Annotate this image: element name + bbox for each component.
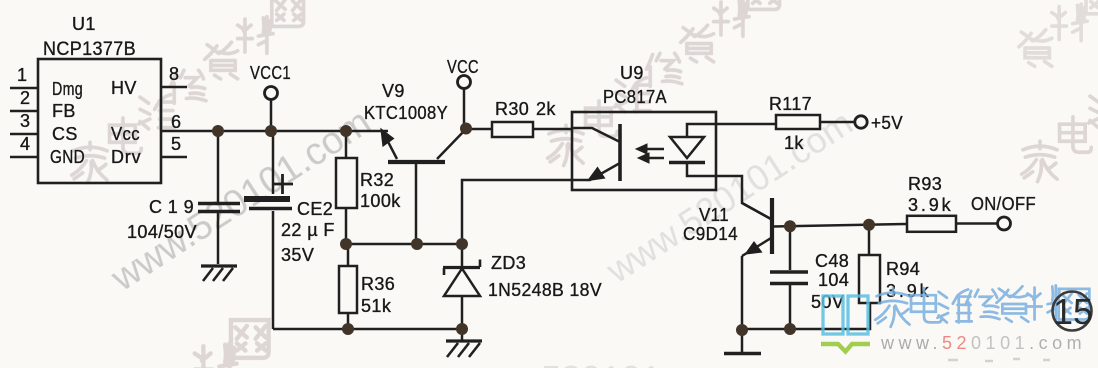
svg-text:Drv: Drv [111,147,141,167]
U9 LED [687,124,776,137]
svg-text:15: 15 [1053,291,1093,332]
wire U9 emitter to node [462,180,572,244]
wire pin6 main [161,130,388,133]
svg-text:VCC: VCC [447,57,479,77]
pin 4 stub [10,156,38,159]
svg-text:3: 3 [20,111,30,131]
svg-text:R93: R93 [908,174,942,194]
svg-text:Dmg: Dmg [52,79,83,99]
svg-text:+5V: +5V [871,113,903,133]
node rail-V9base [411,238,423,250]
pin 5 stub [161,156,187,159]
capacitor C19 [198,202,240,205]
wire mid rail [346,243,462,246]
svg-text:U1: U1 [72,14,96,34]
svg-text:100k: 100k [360,191,401,211]
svg-text:1: 1 [17,65,27,85]
svg-text:HV: HV [111,78,137,98]
svg-text:PC817A: PC817A [603,87,667,107]
U9 light arrows [642,148,664,151]
wire to R30 [466,128,492,131]
resistor R93 [907,216,956,232]
wire bottom rail left [273,328,462,331]
svg-text:ZD3: ZD3 [491,253,526,273]
wire C19 drop [217,131,220,202]
svg-text:C48: C48 [815,251,849,271]
wire CE2 drop [272,131,275,194]
svg-text:VCC1: VCC1 [250,63,291,83]
svg-text:V11: V11 [699,205,729,225]
svg-text:R117: R117 [769,94,812,114]
svg-text:Vcc: Vcc [111,124,140,144]
wire R30 to U9 [533,128,572,131]
pin 2 stub [10,110,38,113]
resistor R32 [336,158,357,208]
node V11-C48 [784,220,796,232]
node main-C19 [212,125,224,137]
blue watermark chars [875,285,1089,327]
resistor R117 [776,115,820,129]
ground C19 [201,264,237,267]
svg-text:FB: FB [52,101,76,121]
svg-text:5: 5 [171,134,181,154]
terminal VCC [458,76,471,89]
resistor R36 [347,244,350,266]
pin 1 stub [10,87,38,90]
terminal VCC1 [265,87,278,100]
wire VCC drop [463,89,466,129]
svg-text:C19: C19 [149,197,194,217]
node V11-R94 [863,219,875,231]
U9 phototransistor [572,128,620,142]
capacitor CE2 [244,196,290,202]
svg-text:R94: R94 [886,259,920,279]
wire bottom rail right [742,303,870,329]
svg-text:www.520101.com: www.520101.com [880,333,1086,353]
node gnd-V11 [736,324,748,336]
optocoupler U9 box [572,112,716,190]
faint marks under url [948,359,1050,361]
op-amp U1 body [38,59,161,183]
svg-text:1N5248B 18V: 1N5248B 18V [488,280,602,300]
svg-text:R30: R30 [495,99,529,119]
svg-text:www.520101.com: www.520101.com [454,358,739,368]
ground ZD3 [461,329,464,340]
svg-text:3.9k: 3.9k [908,195,952,215]
svg-text:6: 6 [171,112,181,132]
svg-text:2k: 2k [536,99,556,119]
svg-text:NCP1377B: NCP1377B [43,39,136,60]
capacitor C48 [789,226,792,270]
ground V11 [724,352,761,355]
svg-text:8: 8 [169,64,179,84]
node bottom-R36 [342,323,354,335]
svg-text:R36: R36 [361,274,395,294]
transistor V11 [770,198,774,254]
node main-CE2 [265,125,277,137]
node rail-ZD3 [456,238,468,250]
svg-text:CE2: CE2 [297,199,333,219]
node main-R32 [340,125,352,137]
terminal +5V [855,116,867,128]
node gnd-C48 [784,323,796,335]
svg-text:2: 2 [20,88,30,108]
svg-text:104/50V: 104/50V [127,222,197,242]
svg-text:1k: 1k [784,133,804,153]
wire VCC1 drop [270,100,273,131]
logo swoosh [821,344,870,352]
svg-text:ON/OFF: ON/OFF [971,194,1036,214]
node bottom-ZD3 [456,323,468,335]
svg-text:104: 104 [818,270,849,290]
svg-text:22 µ F: 22 µ F [281,220,335,240]
svg-text:51k: 51k [361,296,392,316]
svg-text:R32: R32 [360,170,394,190]
resistor R30 [492,122,533,137]
svg-text:KTC1008Y: KTC1008Y [364,103,448,123]
resistor R94 [868,225,871,255]
pin 8 stub [161,86,187,89]
svg-text:C9D14: C9D14 [683,224,738,244]
node VCC-R30 [460,123,472,135]
capacitor CE2 plus [272,174,293,194]
svg-text:GND: GND [50,147,85,167]
page number circle 15 [1053,292,1092,331]
logo book [823,296,868,334]
node rail-R32 [340,238,352,250]
transistor V9 [388,160,445,164]
pin 3 stub [10,133,38,136]
svg-text:CS: CS [52,124,78,144]
svg-text:U9: U9 [620,63,644,83]
wire R32 drop [345,131,348,158]
svg-text:4: 4 [20,134,30,154]
terminal ON/OFF [998,217,1011,230]
zener ZD3 [461,244,464,266]
svg-text:35V: 35V [281,245,314,265]
svg-text:V9: V9 [382,81,405,101]
